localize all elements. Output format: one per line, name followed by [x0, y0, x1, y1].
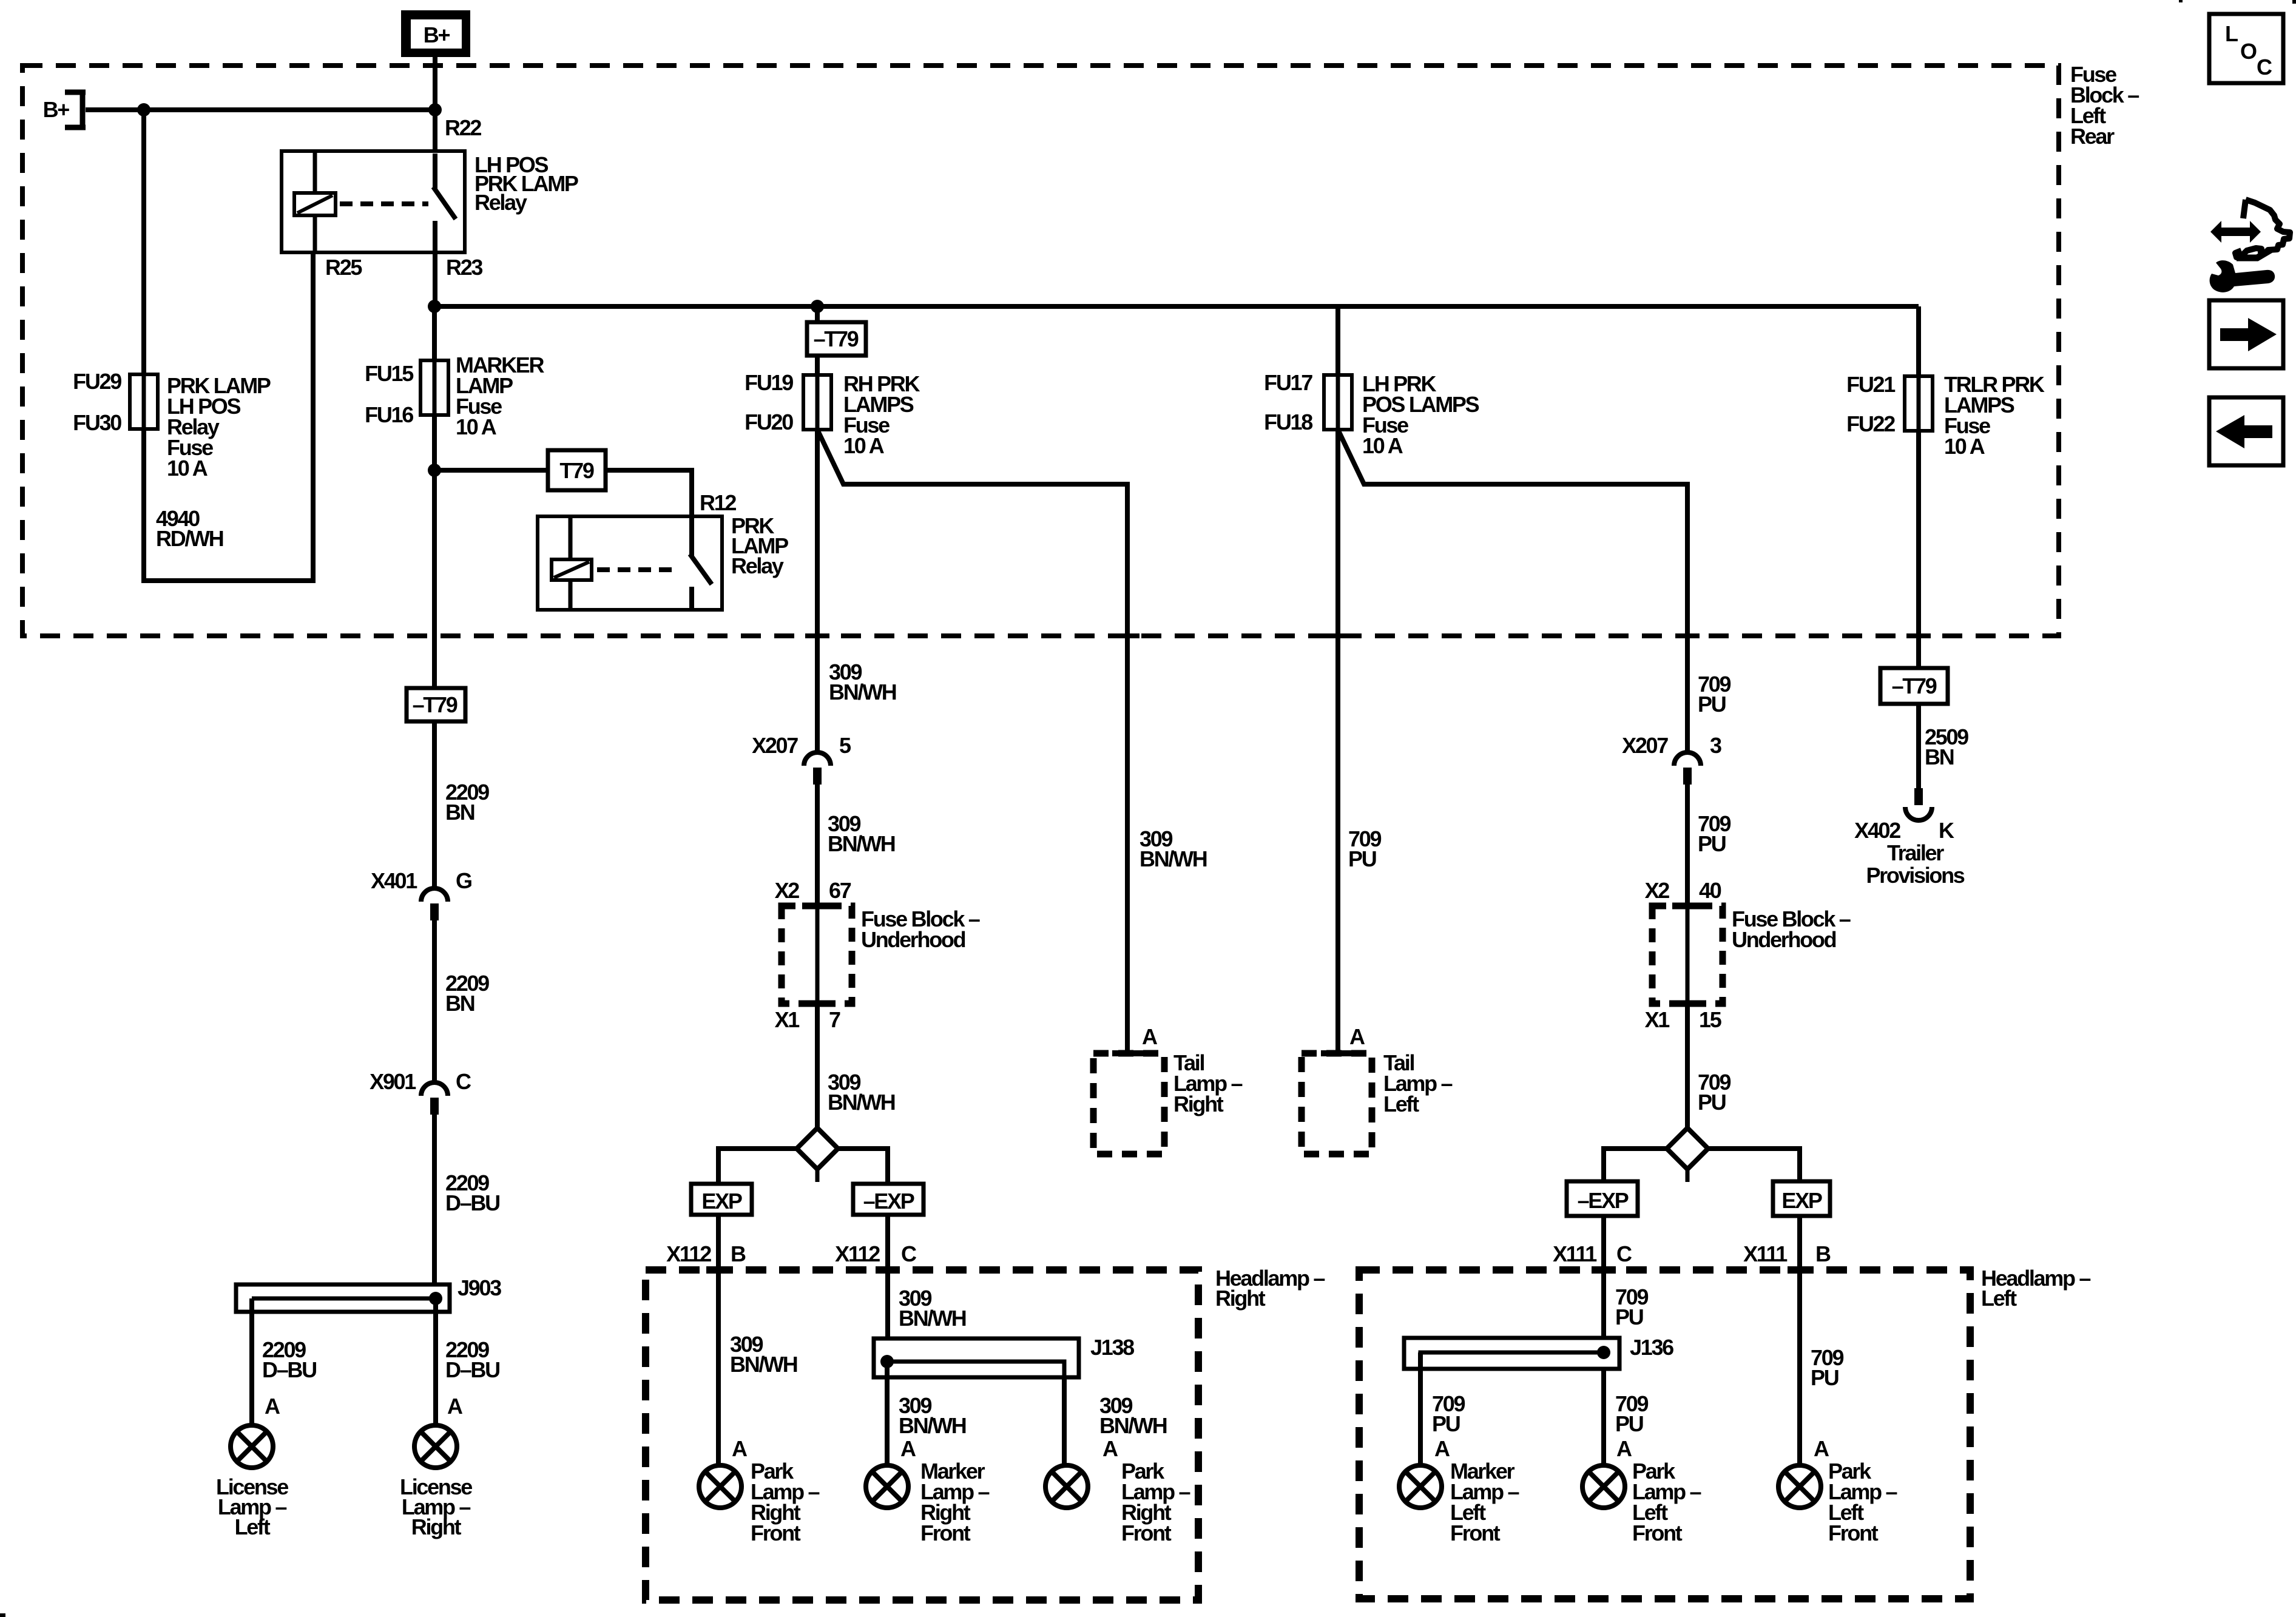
- pin label B: [731, 1241, 746, 1266]
- svg-text:B+: B+: [424, 22, 450, 47]
- label X112 (C): [835, 1241, 880, 1266]
- label PRK LAMP Relay: [731, 513, 788, 578]
- relay switch contact: [690, 516, 712, 610]
- svg-text:X402: X402: [1854, 818, 1900, 843]
- svg-text:C: C: [1616, 1241, 1632, 1266]
- wire -EXP to X111 C: [1601, 1216, 1606, 1465]
- label 4940 RD/WH: [156, 506, 223, 551]
- power B+ terminal box (battery feed): [401, 10, 470, 57]
- relay LH POS PRK LAMP (box): [282, 151, 465, 252]
- svg-text:BN/WH: BN/WH: [828, 1090, 895, 1115]
- label wire 2209 D-BU: [262, 1337, 316, 1382]
- svg-text:B+: B+: [43, 97, 70, 122]
- svg-text:T79: T79: [559, 458, 593, 483]
- tick X1 pin crossing: [802, 1001, 832, 1007]
- svg-text:BN/WH: BN/WH: [829, 680, 896, 704]
- terminal box -T79 (left column): [407, 688, 465, 721]
- label PRK LAMP LH POS Relay Fuse 10 A: [167, 373, 271, 481]
- splice J138 (bus bar): [874, 1338, 1079, 1377]
- junction dot bus left end: [428, 300, 441, 313]
- tick X1 15 crossing: [1672, 1001, 1703, 1007]
- wire EXP to X112 B: [716, 1215, 721, 1465]
- tick X2 pin crossing: [802, 903, 832, 910]
- wire 2209 D-BU to license lamp left: [249, 1298, 254, 1425]
- svg-text:5: 5: [839, 733, 851, 758]
- page edge speck (top): [2179, 0, 2183, 2]
- fuse block - underhood dashed box (LH): [1652, 906, 1723, 1004]
- svg-text:G: G: [456, 868, 471, 893]
- svg-text:10 A: 10 A: [1944, 434, 1985, 459]
- svg-text:R25: R25: [325, 255, 362, 280]
- svg-text:R12: R12: [700, 490, 736, 515]
- label X111 (B): [1743, 1241, 1788, 1266]
- tick wire crossing fuse block boundary: [1115, 633, 1140, 638]
- svg-text:10 A: 10 A: [456, 414, 497, 439]
- label Park Lamp - Left Front (outer): [1828, 1459, 1897, 1545]
- page corner mark: [0, 1613, 5, 1617]
- adjust/repair icon (arrows, hand outline, wrench): [2210, 200, 2290, 292]
- option box -EXP (LH): [1567, 1181, 1638, 1216]
- svg-text:Relay: Relay: [474, 190, 527, 215]
- label RH PRK LAMPS Fuse 10 A: [843, 371, 920, 458]
- svg-text:D–BU: D–BU: [445, 1190, 499, 1215]
- label wire 709 PU (X111 B): [1811, 1345, 1843, 1390]
- svg-text:R22: R22: [445, 115, 481, 140]
- pin label A (park lamp right front outer): [1102, 1436, 1118, 1461]
- svg-text:D–BU: D–BU: [445, 1357, 499, 1382]
- svg-text:C: C: [901, 1241, 917, 1266]
- headlamp - left dashed boundary box: [1359, 1270, 1970, 1599]
- svg-text:Relay: Relay: [731, 553, 784, 578]
- pin label C (X111): [1616, 1241, 1632, 1266]
- svg-text:PU: PU: [1432, 1411, 1460, 1436]
- label wire 309 BN/WH: [828, 1070, 895, 1115]
- pin label C: [901, 1241, 917, 1266]
- svg-text:C: C: [2257, 55, 2272, 79]
- svg-text:X111: X111: [1743, 1241, 1788, 1266]
- fuse FU17/FU18 LH PRK POS LAMPS Fuse 10A: [1324, 375, 1352, 430]
- wire bus to FU15: [432, 306, 437, 360]
- svg-text:FU29: FU29: [73, 369, 121, 394]
- svg-text:EXP: EXP: [1781, 1188, 1822, 1213]
- svg-text:Underhood: Underhood: [1732, 927, 1836, 952]
- pin label A (park lamp right front): [732, 1436, 748, 1461]
- label X401: [371, 868, 417, 893]
- label wire 2209 D-BU: [445, 1170, 499, 1215]
- label wire 709 PU: [1698, 811, 1730, 856]
- pin label FU29: [73, 369, 121, 394]
- label J903: [458, 1275, 501, 1300]
- svg-text:X207: X207: [1622, 733, 1668, 758]
- tick wire crossing fuse block boundary: [1675, 633, 1700, 638]
- fuse FU21/FU22 TRLR PRK LAMPS Fuse 10A: [1905, 376, 1933, 431]
- label wire 309 BN/WH (below J138 middle): [899, 1393, 966, 1438]
- pin label FU17: [1264, 370, 1312, 395]
- label wire 309 BN/WH: [828, 811, 895, 856]
- svg-text:A: A: [1142, 1024, 1158, 1049]
- svg-text:B: B: [1815, 1241, 1831, 1266]
- label LH POS PRK LAMP Relay: [474, 152, 578, 215]
- svg-text:X111: X111: [1553, 1241, 1597, 1266]
- svg-text:A: A: [1814, 1436, 1829, 1461]
- tail lamp - left dashed box: [1302, 1053, 1372, 1154]
- wire bus to FU17: [1335, 306, 1340, 375]
- svg-text:–T79: –T79: [814, 326, 859, 351]
- relay contact linkage dashed line: [340, 201, 428, 206]
- label Trailer Provisions: [1866, 840, 1964, 888]
- label J136: [1630, 1335, 1673, 1360]
- pin label R22: [445, 115, 481, 140]
- svg-text:PU: PU: [1698, 1090, 1726, 1115]
- option box EXP (LH): [1773, 1181, 1830, 1216]
- node B+ (fuse block internal feed terminal): [43, 92, 86, 127]
- label Tail Lamp - Right: [1173, 1050, 1243, 1116]
- svg-text:BN: BN: [1925, 744, 1954, 769]
- svg-text:A: A: [1349, 1024, 1365, 1049]
- connector X901 pin C: [421, 1082, 448, 1115]
- pin label B (X111): [1815, 1241, 1831, 1266]
- svg-text:BN/WH: BN/WH: [1140, 846, 1207, 871]
- tick wire crossing fuse block boundary: [805, 633, 829, 638]
- pin label 40: [1699, 878, 1721, 903]
- label Park Lamp - Right Front: [751, 1459, 820, 1545]
- svg-text:B: B: [731, 1241, 746, 1266]
- svg-text:J903: J903: [458, 1275, 501, 1300]
- wire J138 to marker lamp: [885, 1362, 890, 1465]
- svg-text:K: K: [1939, 818, 1954, 843]
- pin label K: [1939, 818, 1954, 843]
- svg-text:BN/WH: BN/WH: [828, 831, 895, 856]
- label License Lamp - Right: [400, 1474, 472, 1539]
- label X112 (B): [666, 1241, 711, 1266]
- wire 309 BN/WH underhood to splice diamond: [815, 906, 820, 1129]
- svg-text:R23: R23: [446, 255, 482, 280]
- svg-text:–T79: –T79: [413, 692, 458, 717]
- lamp License Lamp - Right: [414, 1425, 457, 1468]
- lamp Park Lamp - Left Front (outer): [1778, 1465, 1821, 1508]
- svg-text:10 A: 10 A: [843, 433, 885, 458]
- label wire 309 BN/WH (park lamp right front): [730, 1332, 797, 1377]
- wire R22 from B+ down to relay: [433, 57, 437, 154]
- pin label A (park lamp left front outer): [1814, 1436, 1829, 1461]
- svg-text:40: 40: [1699, 878, 1721, 903]
- pin label A (license lamp left): [265, 1394, 280, 1419]
- svg-text:–EXP: –EXP: [1578, 1188, 1629, 1213]
- lamp Park Lamp - Left Front: [1582, 1465, 1625, 1508]
- pin label 15: [1699, 1007, 1722, 1032]
- pin label 7: [829, 1007, 840, 1032]
- option box -EXP: [853, 1184, 923, 1215]
- label Marker Lamp - Right Front: [920, 1459, 990, 1545]
- label Fuse Block - Underhood (RH): [861, 906, 980, 952]
- connector X207 pin 3: [1674, 752, 1701, 785]
- wire 2209 D-BU to license lamp right: [433, 1298, 438, 1425]
- junction dot in J138: [880, 1355, 894, 1368]
- svg-text:EXP: EXP: [701, 1189, 741, 1214]
- svg-text:BN: BN: [445, 800, 474, 825]
- svg-text:X1: X1: [775, 1007, 800, 1032]
- svg-text:Left: Left: [1383, 1092, 1419, 1116]
- svg-text:10 A: 10 A: [167, 456, 208, 481]
- wire diamond to -EXP: [838, 1149, 888, 1184]
- junction dot at T79 tap: [428, 464, 441, 477]
- connector X207 pin 5: [804, 752, 831, 785]
- svg-text:Provisions: Provisions: [1866, 863, 1964, 888]
- pin label R25: [325, 255, 362, 280]
- svg-text:Left: Left: [1981, 1286, 2017, 1311]
- svg-text:A: A: [732, 1436, 748, 1461]
- lamp Marker Lamp - Right Front: [866, 1465, 908, 1508]
- tick X111 B crossing: [1788, 1266, 1812, 1274]
- pin label FU21: [1846, 372, 1896, 397]
- junction dot in J136: [1597, 1346, 1610, 1359]
- label Park Lamp - Left Front: [1632, 1459, 1701, 1545]
- pin label A (marker lamp left front): [1434, 1436, 1450, 1461]
- label wire 2509 BN: [1925, 724, 1968, 769]
- relay PRK LAMP Relay (box): [538, 516, 722, 610]
- svg-text:3: 3: [1710, 733, 1721, 758]
- label X1: [775, 1007, 800, 1032]
- wire 309 BN/WH FU20 to X207: [815, 430, 820, 752]
- wire from B+ down to FU29: [141, 110, 146, 374]
- wire bus elbow down to FU21: [1916, 306, 1921, 376]
- svg-text:FU19: FU19: [745, 370, 793, 395]
- svg-text:PU: PU: [1615, 1305, 1643, 1329]
- svg-text:A: A: [447, 1394, 463, 1419]
- svg-text:Trailer: Trailer: [1887, 840, 1944, 865]
- svg-text:FU21: FU21: [1846, 372, 1896, 397]
- svg-text:FU30: FU30: [73, 410, 121, 435]
- pin label A (tail lamp right): [1142, 1024, 1158, 1049]
- label wire 709 PU (park lamp left front): [1615, 1391, 1648, 1436]
- svg-text:PU: PU: [1615, 1411, 1643, 1436]
- label License Lamp - Left: [216, 1474, 288, 1539]
- label Fuse Block - Underhood (LH): [1732, 906, 1851, 952]
- lamp Marker Lamp - Left Front: [1399, 1465, 1442, 1508]
- splice J903 (bus bar): [236, 1284, 450, 1312]
- svg-text:FU18: FU18: [1264, 410, 1312, 434]
- label Park Lamp - Right Front (outer): [1121, 1459, 1190, 1545]
- svg-text:Front: Front: [1121, 1521, 1172, 1545]
- wire J136 to marker lamp left front: [1418, 1352, 1423, 1465]
- svg-text:Front: Front: [920, 1521, 971, 1545]
- wire 2509 BN FU22 to -T79: [1916, 431, 1921, 668]
- svg-text:Left: Left: [235, 1514, 271, 1539]
- label wire 309 BN/WH: [829, 660, 896, 704]
- svg-text:PU: PU: [1348, 846, 1376, 871]
- lamp Park Lamp - Right Front (outer): [1045, 1465, 1088, 1508]
- svg-text:Front: Front: [1450, 1521, 1501, 1545]
- pin label A (tail lamp left): [1349, 1024, 1365, 1049]
- pin label FU20: [745, 410, 793, 434]
- svg-text:C: C: [456, 1069, 471, 1094]
- wire -EXP to X112 C: [885, 1215, 890, 1362]
- pin label FU22: [1846, 411, 1895, 436]
- svg-text:7: 7: [829, 1007, 840, 1032]
- junction dot at R22 branch: [428, 103, 442, 116]
- label TRLR PRK LAMPS Fuse 10 A: [1944, 372, 2045, 459]
- svg-text:FU16: FU16: [365, 402, 413, 427]
- svg-text:–EXP: –EXP: [863, 1189, 914, 1214]
- back arrow legend box: [2209, 397, 2283, 465]
- wire 309 BN/WH branch to tail lamp right: [817, 430, 1127, 1053]
- label Marker Lamp - Left Front: [1450, 1459, 1519, 1545]
- svg-text:FU17: FU17: [1264, 370, 1312, 395]
- label wire 709 PU (tail lamp left): [1348, 826, 1381, 871]
- relay coil (PRK LAMP relay): [552, 516, 592, 610]
- svg-text:O: O: [2240, 39, 2257, 64]
- terminal box -T79 (RH): [807, 322, 866, 356]
- svg-text:X112: X112: [666, 1241, 711, 1266]
- svg-text:RD/WH: RD/WH: [156, 526, 223, 551]
- wire 2509 BN to X402: [1916, 704, 1921, 788]
- label X2: [775, 878, 800, 903]
- svg-text:J136: J136: [1630, 1335, 1673, 1360]
- svg-text:Right: Right: [1215, 1286, 1266, 1311]
- terminal bar A tail lamp left: [1321, 1050, 1352, 1056]
- pin label 67: [829, 878, 851, 903]
- svg-text:FU22: FU22: [1846, 411, 1895, 436]
- label X901: [370, 1069, 416, 1094]
- pin label A (license lamp right): [447, 1394, 463, 1419]
- svg-text:BN: BN: [445, 991, 474, 1016]
- wire 309 BN/WH to fuse block underhood: [815, 785, 820, 906]
- junction dot in J903: [429, 1292, 442, 1305]
- wire bus tap to -T79 box (RH): [815, 306, 820, 322]
- svg-text:FU15: FU15: [365, 361, 414, 386]
- pin label A (marker lamp right front): [900, 1436, 916, 1461]
- svg-text:PU: PU: [1698, 831, 1726, 856]
- fuse FU29/FU30 PRK LAMP LH POS Relay Fuse 10A: [130, 374, 158, 429]
- label wire 309 BN/WH (below J138 right): [1099, 1393, 1167, 1438]
- svg-text:X901: X901: [370, 1069, 416, 1094]
- tick wire crossing fuse block boundary: [1326, 633, 1350, 638]
- label wire 709 PU (above J136): [1615, 1284, 1648, 1329]
- wire B+ feed horizontal: [86, 107, 435, 112]
- tick X2 40 crossing: [1672, 903, 1703, 910]
- svg-text:PU: PU: [1811, 1365, 1838, 1390]
- fuse FU19/FU20 RH PRK LAMPS Fuse 10A: [803, 375, 831, 430]
- svg-text:X112: X112: [835, 1241, 880, 1266]
- tick X112 B crossing: [706, 1266, 731, 1274]
- fuse FU15/FU16 MARKER LAMP Fuse 10A: [420, 360, 448, 415]
- splice diamond (RH park lamps): [797, 1128, 838, 1182]
- label X1 (15): [1645, 1007, 1670, 1032]
- pin label FU16: [365, 402, 413, 427]
- label LH PRK POS LAMPS Fuse 10 A: [1362, 371, 1479, 458]
- svg-text:Front: Front: [751, 1521, 801, 1545]
- svg-text:–T79: –T79: [1892, 673, 1937, 698]
- svg-text:X401: X401: [371, 868, 417, 893]
- tick X111 C crossing: [1592, 1266, 1616, 1274]
- relay coil (LH POS PRK LAMP relay): [294, 151, 336, 252]
- label wire 2209 D-BU: [445, 1337, 499, 1382]
- wire FU16 down to -T79: [432, 415, 437, 688]
- svg-text:Underhood: Underhood: [861, 927, 965, 952]
- junction dot at FU29 branch: [137, 103, 150, 116]
- wire EXP to X111 B: [1797, 1216, 1802, 1465]
- svg-text:A: A: [1434, 1436, 1450, 1461]
- tick X112 C crossing: [876, 1266, 900, 1274]
- svg-text:D–BU: D–BU: [262, 1357, 316, 1382]
- label X2 (40): [1645, 878, 1670, 903]
- label wire 309 BN/WH (tail lamp right): [1140, 826, 1207, 871]
- label J138: [1090, 1335, 1134, 1360]
- pin label 5: [839, 733, 851, 758]
- svg-text:X2: X2: [775, 878, 800, 903]
- svg-text:A: A: [1102, 1436, 1118, 1461]
- label wire 2209 BN: [445, 780, 489, 825]
- splice diamond (LH park lamps): [1667, 1128, 1708, 1182]
- wire J138 to park lamp right front (outer): [1062, 1377, 1067, 1465]
- junction dot at -T79 tap: [811, 300, 824, 313]
- label wire 709 PU: [1698, 672, 1730, 717]
- label MARKER LAMP Fuse 10 A: [456, 353, 544, 439]
- label X111 (C): [1553, 1241, 1597, 1266]
- splice J136 (bus bar): [1404, 1338, 1619, 1369]
- fuse block - underhood dashed box (RH): [782, 906, 852, 1004]
- svg-text:FU20: FU20: [745, 410, 793, 434]
- terminal box -T79 (trailer): [1880, 668, 1948, 704]
- LOC legend box: [2209, 14, 2283, 83]
- pin label A (park lamp left front): [1616, 1436, 1632, 1461]
- connector X402 pin K (trailer provisions): [1905, 788, 1932, 820]
- label X207: [752, 733, 798, 758]
- svg-text:BN/WH: BN/WH: [1099, 1413, 1167, 1438]
- wire junction to T79 box: [434, 468, 548, 473]
- wire 2209 BN to X901: [432, 920, 437, 1084]
- svg-text:A: A: [265, 1394, 280, 1419]
- svg-text:X1: X1: [1645, 1007, 1670, 1032]
- lamp License Lamp - Left: [231, 1425, 273, 1468]
- bus wire (parking lamp feed): [434, 304, 1919, 309]
- option box EXP: [691, 1184, 752, 1215]
- terminal box T79: [548, 450, 606, 490]
- label wire 709 PU: [1698, 1070, 1730, 1115]
- wire diamond to EXP (LH): [1708, 1149, 1800, 1181]
- svg-text:Front: Front: [1828, 1521, 1879, 1545]
- pin label FU15: [365, 361, 414, 386]
- pin label FU30: [73, 410, 121, 435]
- svg-text:X2: X2: [1645, 878, 1670, 903]
- tail lamp - right dashed box: [1093, 1053, 1164, 1154]
- svg-text:Front: Front: [1632, 1521, 1683, 1545]
- connector X401 pin G: [421, 888, 448, 920]
- label wire 709 PU (marker lamp left front): [1432, 1391, 1465, 1436]
- label wire 309 BN/WH (marker lamp feed): [899, 1286, 966, 1331]
- wire 709 PU underhood to splice diamond: [1686, 906, 1690, 1129]
- svg-text:Right: Right: [1173, 1092, 1224, 1116]
- terminal bar A tail lamp right: [1112, 1050, 1143, 1056]
- svg-text:Rear: Rear: [2070, 124, 2115, 149]
- svg-text:L: L: [2225, 21, 2238, 46]
- svg-text:X207: X207: [752, 733, 798, 758]
- pin label R23: [446, 255, 482, 280]
- wire 2209 BN to X401: [432, 721, 437, 890]
- wire R23 down to bus: [433, 252, 437, 306]
- label wire 2209 BN: [445, 971, 489, 1016]
- tick wire crossing fuse block boundary: [1906, 633, 1931, 638]
- wire 4940 RD/WH loop to relay pin R25: [141, 252, 316, 583]
- label Tail Lamp - Left: [1383, 1050, 1453, 1116]
- label Headlamp - Left: [1981, 1266, 2090, 1311]
- svg-text:10 A: 10 A: [1362, 433, 1403, 458]
- relay switch contact: [433, 154, 456, 252]
- fuse block - left rear dashed boundary box: [22, 66, 2059, 636]
- svg-text:BN/WH: BN/WH: [899, 1413, 966, 1438]
- label X402: [1854, 818, 1900, 843]
- relay contact linkage dashed line: [597, 567, 680, 572]
